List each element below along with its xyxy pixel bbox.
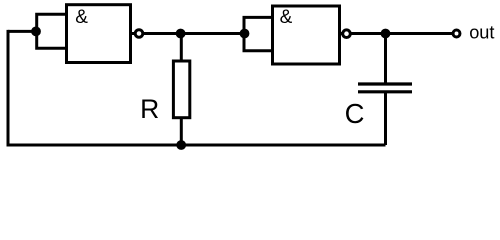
wire: left vertical feedback — [7, 30, 10, 145]
U2 output inversion bubble — [343, 30, 351, 38]
capacitor C plates — [358, 84, 412, 92]
svg-text:&: & — [280, 7, 293, 28]
junction: resistor top node — [176, 29, 186, 39]
wire: capacitor top lead — [384, 34, 387, 85]
wire: capacitor bottom lead — [384, 92, 387, 145]
svg-text:&: & — [75, 7, 88, 28]
svg-text:out: out — [469, 23, 494, 43]
wire: feedback feed into U1 input junction — [8, 30, 36, 33]
NAND gate U1 body — [67, 5, 131, 63]
junction: resistor bottom node — [176, 140, 186, 150]
NAND gate U2 body — [273, 6, 340, 64]
resistor R — [173, 61, 189, 118]
junction: capacitor top node — [381, 29, 391, 39]
wire: bottom rail — [7, 144, 386, 147]
wire: U1 output to node — [131, 32, 245, 35]
wire: resistor leg from node to bottom rail — [180, 34, 183, 146]
wire: U2 output to out terminal — [340, 32, 453, 35]
junction: U2 input node — [240, 29, 250, 39]
svg-text:C: C — [345, 98, 365, 129]
svg-text:R: R — [140, 94, 159, 124]
output terminal ring — [453, 30, 460, 37]
wire: U2 input tie bracket — [244, 17, 273, 50]
U1 output inversion bubble — [135, 30, 143, 38]
wire: U1 input tie bracket — [37, 14, 67, 48]
junction: U1 input node — [31, 27, 41, 37]
